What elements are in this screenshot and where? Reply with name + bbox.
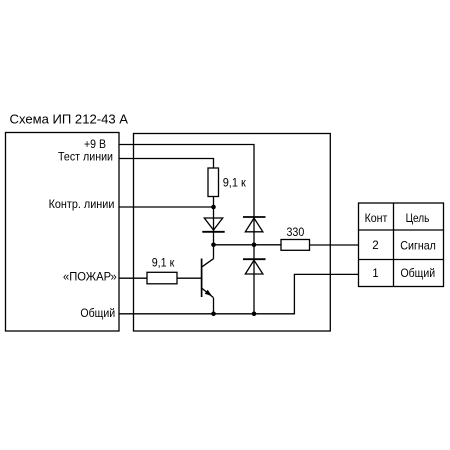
wire emitter down to Общий [213,298,215,314]
svg-text:Цель: Цель [406,212,430,225]
svg-text:9,1 к: 9,1 к [223,176,247,189]
wire R1 bottom to node [213,197,215,208]
wire R3 to contact 2 [310,244,359,246]
resistor R1 9,1 к (vertical) [208,168,219,197]
terminal table frame [359,203,444,287]
node A junction dot (collector node) [211,243,216,248]
wire Тест линии to R1 top [119,159,214,169]
wire VD1 branch vertical [213,207,215,245]
svg-text:+9 В: +9 В [84,138,106,151]
svg-text:«ПОЖАР»: «ПОЖАР» [63,271,117,284]
svg-text:Контр. линии: Контр. линии [49,198,115,211]
junction dot VD2/VD3 [252,243,257,248]
svg-text:Конт: Конт [365,212,388,225]
svg-text:Общий: Общий [80,307,115,320]
junction dot Контр./R1 [211,205,216,210]
wire VD3 branch vertical [253,245,255,314]
diode VD1 (pointing down) [202,218,224,232]
wire collector to node A [213,245,215,259]
diode VD3 (pointing up) [243,259,266,274]
wire VD2 branch vertical [253,217,255,245]
wire ПОЖАР to R2 [119,277,147,279]
resistor R2 9,1 к (horizontal) [147,272,177,284]
device outline box (left, detector pins) [6,133,120,332]
resistor R3 330 (horizontal) [281,240,310,251]
junction dot VD3/Общий [252,312,257,317]
svg-text:Общий: Общий [400,267,435,280]
transistor VT1 (npn) [202,259,214,298]
svg-text:Тест линии: Тест линии [58,151,113,164]
wire +9 В net (to VD2 branch) [119,145,254,217]
wire node A horizontal to R3 [214,244,282,246]
wire R2 to base [177,277,202,279]
junction dot emitter/Общий [211,312,216,317]
svg-text:2: 2 [372,239,378,252]
wire Контр. линии net [119,206,214,208]
svg-text:1: 1 [372,267,378,280]
svg-text:330: 330 [287,226,305,239]
wire Общий net (to contact 1) [119,274,359,313]
svg-text:Схема ИП 212-43 А: Схема ИП 212-43 А [10,113,129,127]
diode VD2 (pointing up) [243,217,266,232]
svg-text:Сигнал: Сигнал [400,239,436,252]
svg-text:9,1 к: 9,1 к [152,257,175,270]
detector internal circuit box [134,134,331,332]
